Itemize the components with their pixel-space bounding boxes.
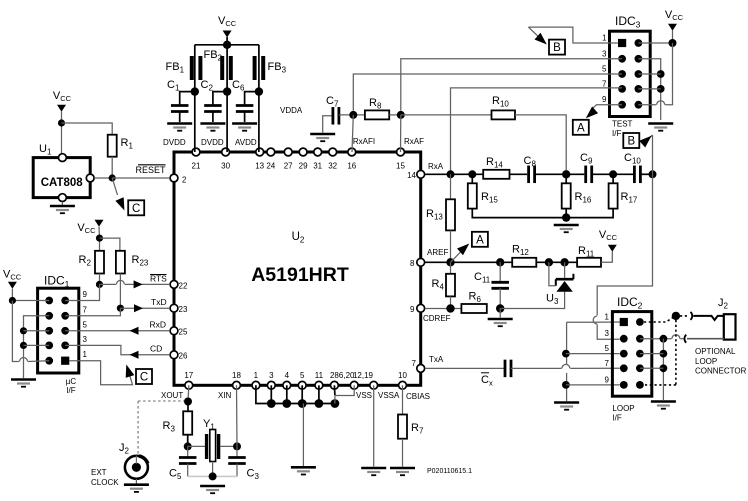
pin name labels [135,106,450,401]
resistor R1 [108,135,117,157]
svg-text:XIN: XIN [218,391,232,400]
pin 11 (bottom edge) [315,371,324,389]
svg-text:C: C [140,372,148,384]
svg-text:CLOCK: CLOCK [91,478,119,487]
wire IDC3 pin3 to RxAF [401,59,622,111]
wire R8 to RxAF node [389,114,401,116]
ground (C2) [200,124,225,131]
wire XOUT to R3 [187,402,189,412]
wire C9 to R17 node [592,173,633,175]
junction CDREF/C11/gnd [496,304,504,312]
junction IDC2 pin6 [660,350,668,358]
pin 12,19 (bottom edge) [353,371,378,389]
wire VSS 12,19 to ground [373,385,375,466]
wire Vcc to IDC1 pin10 [12,289,49,301]
wire R12 to zener node [536,261,577,263]
svg-text:25: 25 [179,328,188,337]
wire U1 gnd [61,202,63,205]
pin 4 (bottom edge) [283,371,291,389]
ground (R7) [390,468,415,475]
wire R15 top [471,174,473,183]
capacitor C2 [204,92,227,122]
svg-text:µC: µC [66,377,77,386]
node A (IDC3) [573,120,589,135]
junction C10/B [649,170,657,178]
svg-text:23: 23 [179,305,188,314]
wire C8 to node [535,173,567,175]
wire bus to ground [302,404,304,467]
resistor R8 [365,110,389,119]
label EXT CLOCK [91,468,119,487]
junction FB3 [255,87,263,95]
junction TxD [117,305,124,312]
capacitor C10 [633,166,636,184]
arrow to B box [646,135,653,141]
svg-text:3: 3 [83,335,88,344]
svg-text:LOOP: LOOP [695,357,717,366]
junction C8/C9/R16 [562,170,570,178]
junction AREF/C11 [496,258,504,266]
IDC3 pin row (pins 5/6) [602,65,642,78]
svg-text:TEST: TEST [612,120,633,129]
label Cx [481,373,493,388]
svg-text:13: 13 [255,162,264,171]
ferrite bead FB1 [192,56,201,80]
dotted wire IDC2 pin2 to J2 tip [644,318,673,323]
junction gnd bus [282,399,291,408]
ferrite bead FB3 [255,56,264,80]
svg-text:B: B [553,42,561,54]
IDC1 pin row (pins 6/5) [45,320,87,334]
IDC2 pin row (pins 1/2) [605,313,644,327]
svg-text:32: 32 [328,162,337,171]
pin 30 (top edge) [221,148,230,170]
resistor R17 [609,183,618,208]
pin 29 (top edge) [299,148,308,170]
wire FB1 branch [194,45,196,152]
wire R17 top [612,174,614,183]
wire IDC2 pin1 line [567,321,620,323]
wire IDC2 pin9 stub [566,384,620,386]
wire R2 to RTS line [99,274,101,285]
junction Vcc/R1 [58,119,65,126]
resistor R15 [468,183,477,208]
IDC1 pin row (pins 10/9) [45,290,87,304]
ground (CDREF) [488,319,513,326]
svg-text:11: 11 [315,371,324,380]
pin 27 (top edge) [284,148,293,170]
wire Cx to IDC2 pin7 (hop over gnd line) [511,367,562,369]
wire U1 output to RESET node [94,177,112,179]
ground (J3) [124,485,149,492]
junction CDREF/R4 [446,304,454,312]
wire CDREF to zener anode [500,291,564,308]
arrow into B [528,27,539,37]
wire Vcc stub [672,30,674,43]
power symbol Vcc (R11) [599,229,618,252]
power symbol Vcc (FB rail) [218,15,237,38]
power symbol Vcc (IDC3) [665,9,684,31]
svg-text:3: 3 [269,371,274,380]
junction zener cathode [560,258,568,266]
wire zener ref L [549,262,556,286]
junction RxAFI [349,111,357,119]
svg-text:9: 9 [410,305,415,314]
junction IDC2 pin8 [660,364,668,372]
junction IDC3 gnd row6 [657,70,665,78]
capacitor Cx [504,360,507,378]
svg-text:AREF: AREF [427,248,448,257]
pin 26 (left edge) [170,351,188,361]
wire AREF line [425,261,512,263]
resistor R16 [562,183,571,208]
ground (IDC2 left) [554,403,579,410]
junction IDC3 gnd row8 [657,85,665,93]
svg-text:I/F: I/F [66,386,75,395]
junction RxA/R15 [468,170,476,178]
wire ground bus pins 1,3,4,5,11,28 [256,385,335,403]
capacitor C5 [179,446,197,476]
svg-text:21: 21 [192,162,201,171]
wire R10 to C8/C9 node [515,115,566,170]
wire RxAF node to pin15 [400,115,402,152]
wire R7 to ground [402,439,404,467]
pin 17 (bottom edge) [184,371,193,389]
junction J2 tip node [672,312,680,320]
junction crystal left [184,442,192,450]
junction gnd bus [267,399,276,408]
junction RTS [96,281,103,288]
svg-text:I/F: I/F [612,414,621,423]
resistor R6 [461,304,486,313]
pin 21 (top edge) [192,148,201,170]
ground (VSS) [361,468,386,475]
wire CDREF gnd [499,309,501,318]
power symbol Vcc (R2/R23) [77,220,103,235]
svg-text:EXT: EXT [91,468,107,477]
label uC I/F [66,377,77,395]
power symbol Vcc (CAT808) [53,90,72,112]
svg-text:16: 16 [347,162,356,171]
svg-text:TxD: TxD [151,297,167,307]
ground (C1) [167,124,192,131]
wire IDC3 pin6 stub [638,73,660,75]
svg-text:TxA: TxA [429,355,444,364]
pin 25 (left edge) [170,327,188,337]
svg-text:RxD: RxD [150,320,167,330]
capacitor C11 [491,281,509,284]
wire FB rail horizontal [195,44,259,46]
wire RxA to R13 [450,174,452,199]
svg-text:7: 7 [602,79,607,88]
svg-text:RxA: RxA [428,162,444,171]
junction RESET node [109,174,116,181]
svg-text:C: C [132,203,140,215]
wire node to C9 [566,173,584,175]
wire gnd stub [318,385,320,403]
ground (digital) [291,467,316,474]
dotted wire J2 tip node down to IDC2 pin10 [645,320,676,385]
ground (C6) [232,124,257,131]
ground (crystal) [200,486,225,493]
capacitor C9 [584,166,587,184]
pin 10 (bottom edge) [398,371,407,389]
wire pin 6,20 jog [335,385,354,403]
J2 sleeve contact [684,335,686,343]
svg-text:5: 5 [83,320,88,329]
node A (AREF) [472,232,488,247]
wire RxAFI junction to pin16 [352,115,353,152]
resistor R10 [492,110,516,119]
wire CDREF pin9 to R4 node [425,308,462,310]
junction zener ref [545,258,553,266]
svg-text:VSS: VSS [356,391,372,400]
svg-text:VDDA: VDDA [280,106,303,115]
svg-text:7: 7 [83,305,88,314]
wire crystal bottom [212,462,214,477]
arrow RTS [134,280,143,288]
svg-text:7: 7 [412,359,417,368]
wire C11 to CDREF node [499,288,501,308]
wire RESET to pin 2 [112,177,170,179]
junction RxA/R13 [447,170,455,178]
ground (U1) [50,206,75,213]
svg-text:RESET: RESET [135,165,166,175]
IDC1 pin row (pins 8/7) [45,305,87,319]
resistor R14 [483,170,509,179]
resistor R11 [577,258,601,267]
wire J2 sleeve line [687,338,724,340]
wire R13 to AREF [450,230,452,262]
wire J3 gnd [135,479,137,484]
svg-text:1: 1 [83,350,88,359]
wire Vcc to U1 [61,112,63,154]
crystal Y1 [207,430,219,462]
connector IDC1 [38,288,79,373]
pin 2 (left edge) [170,174,187,184]
svg-text:P020110615.1: P020110615.1 [427,468,472,475]
ground (filter) [554,225,579,232]
wire crystal gnd bus [188,475,237,477]
wire R3 to crystal node [187,435,189,447]
junction RxAF [397,111,405,119]
wire TxA to Cx [425,367,505,369]
pin 32 (top edge) [328,148,337,170]
pin 24 (top edge) [266,148,275,170]
junction AREF/R13/R4 [446,258,454,266]
svg-text:4: 4 [285,371,290,380]
wire IDC1 pin3 CD line to pin 26 [65,345,170,354]
svg-text:CD: CD [150,344,162,354]
wire AREF to C11 [499,262,501,282]
arrow to A box [451,252,462,263]
wire IDC1 pin9 to RTS [65,284,99,300]
wire RTS line to pin 22 (hop over R23) [100,283,116,285]
IDC1 pin row (pins 4/3) [45,335,87,349]
wire IDC1 pin5 RxD line to pin 25 [65,330,170,332]
pin U1 right [86,174,94,182]
power symbol Vcc (IDC1) [3,269,22,289]
svg-text:CDREF: CDREF [423,314,451,323]
wire CBIAS pin10 to R7 [402,385,404,414]
svg-text:A5191HRT: A5191HRT [251,264,349,286]
wire arrow to node C [112,178,117,195]
junction gnd rail row4 [20,342,27,349]
wire Vcc to R2 [98,227,101,251]
svg-text:CONNECTOR: CONNECTOR [695,367,747,376]
pin U1 top [59,154,67,162]
wire R16 top [565,174,567,183]
ground (C7) [310,134,335,141]
resistor R7 [398,415,407,439]
svg-text:5: 5 [602,65,607,74]
pin 5 (bottom edge) [298,371,306,389]
resistor R4 [446,274,455,297]
wire to crystal left plate [188,445,205,447]
wire TxD line to pin 23 [120,307,169,309]
wire pin28 stub [333,385,336,395]
wire IDC3 pin1 to node B [528,27,618,43]
op-amp U2 main IC A5191HRT body [174,152,421,385]
svg-text:DVDD: DVDD [201,138,224,147]
wire IDC1 pin7 to TxD [65,308,120,316]
wire R11 to Vcc [601,252,612,263]
wire J2 tip line [693,316,724,320]
pin 8 (right edge) [410,258,425,268]
svg-text:12,19: 12,19 [353,371,374,380]
svg-text:I/F: I/F [612,129,621,138]
ground (IDC3) [648,124,673,131]
svg-text:29: 29 [299,162,308,171]
wire IDC3 pin2 to Vcc [638,42,672,44]
ground (IDC2 right) [651,402,676,409]
label LOOP I/F [612,404,634,423]
IDC3 pin row (pins 9/10) [602,95,642,108]
node B (test clk out) [549,40,565,55]
junction gnd bus [298,399,307,408]
wire DVDD pin30 branch [226,92,228,152]
arrow TxD [134,304,143,312]
svg-text:9: 9 [83,290,88,299]
resistor R23 [116,251,125,274]
svg-text:17: 17 [184,371,193,380]
junction XOUT [184,398,192,406]
wire B net vertical (C10 to IDC2) [597,135,652,315]
dotted wire J2 tip node to contact [680,315,688,317]
wire pin17 XOUT down [187,385,190,401]
svg-text:27: 27 [284,162,293,171]
wire RxA line [425,173,483,175]
junction IDC2 pin5 gnd [562,350,570,358]
pin 13 (top edge) [255,148,264,170]
wire Vcc down to pin10 (hop over gnd line) [665,43,672,105]
svg-text:10: 10 [398,371,407,380]
wire IDC2 pin8 stub [640,367,664,369]
arrow CD [130,351,139,359]
pin 14 (right edge) [407,170,425,180]
capacitor C1 [171,92,195,122]
wire gnd stub [301,385,303,403]
junction FB2 [223,87,231,95]
ground (IDC1) [11,380,36,387]
junction gnd bus end [331,399,340,408]
wire RxAF node to R10 [401,114,492,116]
dotted ext-clock wire [138,400,184,402]
junction crystal right [233,442,241,450]
IDC3 pin row (pins 3/4) [602,49,642,62]
svg-text:3: 3 [602,49,607,58]
junction gnd bus [315,399,324,408]
pin 22 (left edge) [170,281,188,291]
IDC3 pin row (pins 7/8) [602,79,642,92]
pin 1 (bottom edge) [252,371,260,389]
node C (reset) [128,200,144,215]
IC U1 CAT808 [33,158,90,198]
svg-text:1: 1 [602,34,607,43]
wire IDC3 pin7 to RxA [451,88,622,171]
pin 3 (bottom edge) [267,371,275,389]
svg-text:2: 2 [182,176,187,185]
wire Vcc to R1 [62,123,113,135]
svg-text:1: 1 [254,371,259,380]
node C (IDC1) [136,369,152,384]
pin U1 bottom [59,194,67,202]
svg-text:18: 18 [232,371,241,380]
wire IDC2 pin6 stub [640,353,664,355]
wire IDC3 pin8 stub [638,88,660,90]
pin 6,20 (bottom edge) [339,371,358,389]
J2 tip contact [691,312,693,320]
wire IDC2 pin5 stub [566,353,620,355]
svg-text:22: 22 [179,282,188,291]
ferrite bead FB2 [222,56,231,80]
label RTS [150,274,167,284]
wire pin18 XIN down [236,385,239,457]
junction filter gnd [562,213,570,221]
wire C7 gnd lead [323,116,333,133]
svg-text:14: 14 [407,171,416,180]
wire R16 bottom [565,209,567,218]
svg-text:24: 24 [266,162,275,171]
svg-text:9: 9 [605,375,610,384]
capacitor C3 [228,458,246,477]
junction Vcc rail [223,41,231,49]
wire C10 to B node [640,173,652,175]
pin 23 (left edge) [170,304,188,314]
svg-text:DVDD: DVDD [163,138,186,147]
IDC2 pin row (pins 5/6) [605,344,644,357]
junction FB1 [191,87,199,95]
wire AREF to R4 [450,262,452,274]
svg-text:3: 3 [605,329,610,338]
pin 16 (top edge) [347,148,356,170]
wire filter gnd bus [472,209,613,218]
wire crystal right to XIN node [220,445,237,447]
pin 31 (top edge) [313,148,322,170]
capacitor C6 [236,92,259,122]
svg-text:8: 8 [410,259,415,268]
wire R1 to RESET node [111,157,113,178]
svg-text:A: A [577,122,585,134]
resistor R12 [512,258,536,267]
wire IDC3 pin4 to gnd rail [638,59,660,120]
connector IDC3 [610,31,651,116]
arrow RxD [130,327,139,335]
junction Vcc IDC3 [669,39,677,47]
svg-text:VSSA: VSSA [378,391,400,400]
wire IDC1 pin8 to gnd rail [24,316,50,378]
wire IDC1 pin4 stub [24,344,50,346]
